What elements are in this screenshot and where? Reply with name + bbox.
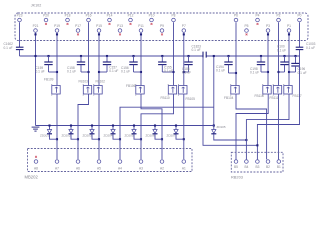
svg-text:ZD105: ZD105 xyxy=(217,125,226,129)
svg-text:P9: P9 xyxy=(160,24,164,28)
svg-text:P19: P19 xyxy=(54,24,60,28)
svg-text:A5: A5 xyxy=(97,167,101,171)
ESD diode ZD203 xyxy=(83,126,95,137)
wire P2 down to FB111 xyxy=(278,22,280,85)
pin B1 of RB203 xyxy=(277,160,281,169)
wire P7 down to FB105 xyxy=(183,33,185,86)
svg-text:P6: P6 xyxy=(234,13,238,17)
svg-text:P23: P23 xyxy=(17,13,23,17)
capacitor C155 xyxy=(158,55,173,73)
ferrite bead FB102 xyxy=(93,80,105,96)
pin P21 of JK102 xyxy=(33,24,39,32)
lower ground bus xyxy=(36,125,214,127)
svg-text:0.1 uF: 0.1 uF xyxy=(4,46,13,50)
svg-text:B1: B1 xyxy=(277,165,281,169)
capacitor C196 xyxy=(289,55,307,75)
pin A1 of MB202 xyxy=(182,160,186,171)
pin A6 of MB202 xyxy=(76,160,80,171)
svg-text:P18: P18 xyxy=(65,13,71,17)
wire P15 down to FB102 xyxy=(98,33,100,86)
svg-text:P1: P1 xyxy=(287,24,291,28)
svg-text:A3: A3 xyxy=(139,167,143,171)
ESD diode ZD201 xyxy=(40,126,52,137)
pin A8 of MB202 xyxy=(34,156,38,171)
pin P13 of JK102 xyxy=(117,24,123,35)
pin P9 of JK102 xyxy=(160,24,164,35)
pin P4 of JK102 xyxy=(255,13,259,24)
pin P18 of JK102 xyxy=(65,13,71,24)
svg-text:0.1 uF: 0.1 uF xyxy=(182,70,191,74)
svg-text:B2: B2 xyxy=(266,165,270,169)
wire FB117 to pin B4 xyxy=(246,94,289,159)
svg-text:P10: P10 xyxy=(149,13,155,17)
connector MB202 body xyxy=(28,149,193,172)
wire FB102 to pin A5 xyxy=(98,94,100,159)
svg-text:ZD207: ZD207 xyxy=(167,133,176,137)
svg-text:P0: P0 xyxy=(297,13,301,17)
wire C1603 to ground bus xyxy=(299,50,301,56)
svg-text:P20: P20 xyxy=(43,13,49,17)
svg-text:JK102: JK102 xyxy=(31,4,41,8)
svg-text:FB118: FB118 xyxy=(255,94,264,98)
svg-text:0.1 uF: 0.1 uF xyxy=(67,69,76,73)
svg-text:P15: P15 xyxy=(96,24,102,28)
wire ZD203 to signal xyxy=(92,137,100,140)
svg-text:P16: P16 xyxy=(86,13,92,17)
svg-text:A8: A8 xyxy=(34,167,38,171)
svg-text:A2: A2 xyxy=(160,167,164,171)
wire ground bus right end down to pin B3 xyxy=(257,56,299,159)
svg-text:A7: A7 xyxy=(55,167,59,171)
ferrite bead FB105 xyxy=(178,84,195,101)
svg-text:FB109: FB109 xyxy=(44,78,54,82)
wire P11 down to FB106 xyxy=(140,33,142,86)
svg-text:P2: P2 xyxy=(276,13,280,17)
pin A4 of MB202 xyxy=(118,160,122,171)
wire FB106 to pin A2 xyxy=(141,94,162,159)
pin P2 of JK102 xyxy=(276,13,280,21)
pin P19 of JK102 xyxy=(54,24,60,32)
svg-text:FB105: FB105 xyxy=(186,97,196,101)
pin A7 of MB202 xyxy=(55,160,59,171)
pin P12 of JK102 xyxy=(128,13,134,24)
wire FB104 to pin B2 xyxy=(236,94,267,159)
ground symbol xyxy=(32,127,40,131)
svg-text:A4: A4 xyxy=(118,167,122,171)
svg-text:P17: P17 xyxy=(75,24,81,28)
svg-text:FB103: FB103 xyxy=(79,80,89,84)
svg-text:P8: P8 xyxy=(171,13,175,17)
wire P16 down to FB108 xyxy=(88,22,90,85)
ground bus (upper right segment) xyxy=(206,55,299,57)
ferrite bead FB117 xyxy=(283,84,302,98)
capacitor C159 xyxy=(36,55,58,73)
connector JK102 body xyxy=(15,13,308,41)
wire ground bus to pin A4 xyxy=(213,56,215,107)
ferrite bead FB110 xyxy=(161,84,177,100)
svg-text:P13: P13 xyxy=(117,24,123,28)
svg-text:ZD206: ZD206 xyxy=(146,133,155,137)
svg-text:ZD204: ZD204 xyxy=(104,133,113,137)
pin B2 of RB203 xyxy=(266,160,270,169)
svg-text:P12: P12 xyxy=(128,13,134,17)
pin P11 of JK102 xyxy=(138,24,144,32)
svg-text:FB117: FB117 xyxy=(293,94,302,98)
wire ZD207 to signal xyxy=(176,137,184,140)
wire P1 down to FB117 xyxy=(288,33,290,86)
svg-text:MB202: MB202 xyxy=(25,175,39,180)
svg-text:0.1 uF: 0.1 uF xyxy=(216,69,225,73)
svg-text:P7: P7 xyxy=(182,24,186,28)
svg-text:FB104: FB104 xyxy=(224,96,234,100)
svg-text:B5: B5 xyxy=(234,165,238,169)
svg-text:FB106: FB106 xyxy=(126,84,136,88)
wire ZD206 to signal xyxy=(155,137,163,140)
svg-text:B3: B3 xyxy=(255,165,259,169)
svg-text:0.1 uF: 0.1 uF xyxy=(250,71,259,75)
ESD diode ZD207 xyxy=(167,126,179,137)
pin P14 of JK102 xyxy=(107,13,113,24)
ferrite bead FB109 xyxy=(44,78,60,96)
wire FB110 to pin A3 xyxy=(141,94,174,159)
svg-text:A6: A6 xyxy=(76,167,80,171)
capacitor C1602 xyxy=(4,42,24,50)
pin P20 of JK102 xyxy=(43,13,49,24)
svg-text:0.1 uF: 0.1 uF xyxy=(306,46,315,50)
svg-text:B4: B4 xyxy=(244,165,248,169)
ESD diode ZD205 xyxy=(125,126,137,137)
wire FB111 to pin B1 xyxy=(278,94,280,159)
svg-text:0.1 uF: 0.1 uF xyxy=(277,48,286,52)
ferrite bead FB111 xyxy=(270,84,282,100)
pin B5 of RB203 xyxy=(234,160,238,169)
svg-text:P14: P14 xyxy=(107,13,113,17)
svg-text:0.1 uF: 0.1 uF xyxy=(109,69,118,73)
pin A5 of MB202 xyxy=(97,160,101,171)
pin P1 of JK102 xyxy=(287,24,291,32)
wire ZD202 to signal xyxy=(71,137,79,140)
ferrite bead FB103 xyxy=(79,80,92,96)
pin P5 of JK102 xyxy=(244,24,248,35)
svg-text:0.1 uF: 0.1 uF xyxy=(121,69,130,73)
pin B3 of RB203 xyxy=(255,160,259,169)
capacitor C194 xyxy=(216,55,236,73)
svg-text:FB102: FB102 xyxy=(96,80,106,84)
series capacitor C1823 xyxy=(192,44,207,57)
svg-text:ZD201: ZD201 xyxy=(40,133,49,137)
svg-text:ZD203: ZD203 xyxy=(83,133,92,137)
capacitor C158 xyxy=(67,55,89,73)
ESD diode ZD206 xyxy=(146,126,158,137)
wire ZD205 to signal xyxy=(134,137,142,140)
pin A2 of MB202 xyxy=(160,160,164,171)
svg-text:ZD205: ZD205 xyxy=(125,133,134,137)
capacitor C198 xyxy=(250,55,268,75)
capacitor C157 xyxy=(99,55,118,73)
pin P7 of JK102 xyxy=(182,24,186,32)
wire ZD105 to pin B4 net xyxy=(214,137,247,141)
wire P19 down to FB109 xyxy=(56,33,58,86)
svg-text:RB203: RB203 xyxy=(231,174,243,179)
wire P0 to C1603 xyxy=(299,22,301,47)
pin P8 of JK102 xyxy=(171,13,175,21)
wire FB109 to pin A7 xyxy=(56,94,58,159)
svg-text:0.1 uF: 0.1 uF xyxy=(192,48,201,52)
svg-text:P11: P11 xyxy=(138,24,144,28)
capacitor C1603 xyxy=(296,42,316,50)
wire FB105 to pin A1 xyxy=(183,94,185,159)
pin P23 of JK102 xyxy=(17,13,23,21)
ESD diode ZD202 xyxy=(62,126,74,137)
svg-text:P3: P3 xyxy=(266,24,270,28)
wire FB103 to pin A6 xyxy=(78,94,89,159)
svg-text:FB111: FB111 xyxy=(270,96,279,100)
ferrite bead FB104 xyxy=(224,84,239,100)
svg-text:0.1 uF: 0.1 uF xyxy=(164,69,173,73)
svg-text:P4: P4 xyxy=(255,13,259,17)
pin B4 of RB203 xyxy=(244,160,248,169)
wire P3 down to FB118 xyxy=(267,33,269,86)
wire P8 down to FB110 xyxy=(173,22,175,85)
capacitor C156 xyxy=(121,55,141,73)
svg-text:P21: P21 xyxy=(33,24,39,28)
ESD diode ZD204 xyxy=(104,126,116,137)
wire P23 to C1602 xyxy=(19,22,21,47)
wire ground bus drop to lower ground bus xyxy=(213,107,215,126)
pin P17 of JK102 xyxy=(75,24,81,35)
ESD diode ZD105 xyxy=(211,125,226,137)
wire C1602 to ground bus xyxy=(19,50,21,56)
pin P6 of JK102 xyxy=(234,13,238,21)
capacitor C100 xyxy=(277,45,289,72)
svg-text:0.1 uF: 0.1 uF xyxy=(36,69,45,73)
wire ZD201 to signal xyxy=(50,137,58,140)
pin P3 of JK102 xyxy=(266,24,270,32)
wire ZD204 to signal xyxy=(113,137,121,140)
pin P0 of JK102 xyxy=(297,13,301,21)
wire C1823 branch join to pin B3 net xyxy=(203,58,257,146)
pin P10 of JK102 xyxy=(149,13,155,24)
wire P6 down to FB104 xyxy=(235,22,237,85)
connector RB203 body xyxy=(231,152,283,172)
svg-text:A1: A1 xyxy=(182,167,186,171)
svg-text:P5: P5 xyxy=(244,24,248,28)
ferrite bead FB106 xyxy=(126,84,144,96)
svg-text:FB110: FB110 xyxy=(161,96,170,100)
wire FB118 to pin B5 xyxy=(236,94,268,159)
pin A3 of MB202 xyxy=(139,160,143,171)
wire P21 to ground bus and ground symbol xyxy=(35,33,37,126)
pin P16 of JK102 xyxy=(86,13,92,21)
svg-text:0.1 uF: 0.1 uF xyxy=(298,71,307,75)
pin P15 of JK102 xyxy=(96,24,102,32)
capacitor C186 xyxy=(182,55,193,74)
svg-text:ZD202: ZD202 xyxy=(62,133,71,137)
ferrite bead FB118 xyxy=(255,84,272,98)
ground bus (upper) xyxy=(20,55,204,57)
